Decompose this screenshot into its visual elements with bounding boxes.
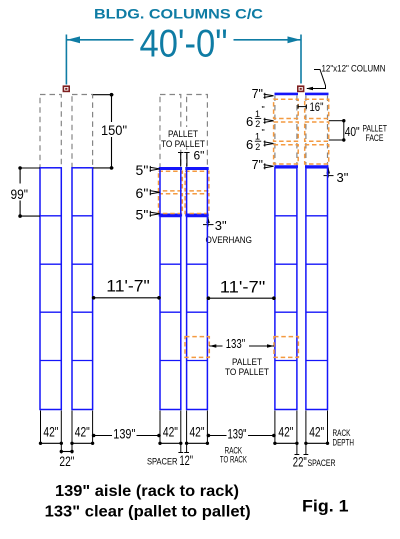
title BLDG. COLUMNS C/C — [94, 5, 263, 21]
svg-text:6": 6" — [194, 148, 205, 162]
svg-text:139": 139" — [113, 425, 135, 441]
rack 3 hidden rails in bay (dashed) — [275, 96, 328, 166]
bottom extension lines — [41, 411, 328, 455]
svg-text:139": 139" — [228, 425, 247, 441]
rack 3 bottom beam — [275, 165, 329, 168]
svg-text:6: 6 — [246, 137, 253, 152]
aisle pallet left (orange dashed) — [185, 337, 209, 358]
svg-text:2: 2 — [255, 142, 260, 152]
svg-text:22": 22" — [59, 453, 74, 469]
label PALLET TO PALLET (top) — [161, 127, 207, 149]
aisle pallet right (orange dashed) — [274, 337, 298, 358]
svg-text:5": 5" — [136, 207, 149, 223]
dimension 11'-7" left — [92, 276, 161, 299]
rack 2 pallets (orange dashed) — [159, 171, 209, 213]
leader 12"x12" COLUMN — [306, 64, 386, 91]
svg-text:FACE: FACE — [366, 133, 384, 143]
dimension 99" — [8, 166, 40, 218]
dimension 40" PALLET FACE — [329, 119, 387, 143]
svg-text:139" aisle (rack to rack): 139" aisle (rack to rack) — [55, 483, 239, 500]
svg-text:PALLET: PALLET — [168, 129, 198, 139]
dimension 6" (pallet to pallet gap) — [178, 148, 204, 166]
svg-text:TO RACK: TO RACK — [220, 455, 248, 465]
svg-text:6: 6 — [246, 114, 253, 129]
dimension 22" rack 1 — [59, 450, 74, 469]
svg-text:42": 42" — [190, 424, 205, 440]
rack 1 frames — [40, 168, 93, 410]
svg-text:OVERHANG: OVERHANG — [206, 235, 253, 245]
svg-text:7": 7" — [252, 158, 263, 172]
svg-text:6": 6" — [136, 185, 149, 201]
dimension 16" — [298, 100, 324, 114]
svg-text:12": 12" — [180, 452, 194, 468]
svg-text:22": 22" — [293, 453, 307, 469]
rack 2 hidden rails (dashed) — [160, 95, 207, 168]
dimension 139" right (RACK TO RACK) — [207, 425, 276, 464]
svg-text:": " — [262, 105, 265, 115]
svg-text:PALLET: PALLET — [232, 357, 262, 367]
svg-text:42": 42" — [278, 424, 293, 440]
dimension 139" left — [92, 425, 161, 441]
svg-text:7": 7" — [252, 87, 263, 101]
rack 3 frames — [275, 168, 328, 410]
svg-text:12"x12" COLUMN: 12"x12" COLUMN — [322, 64, 386, 75]
rack 2 bay side rails — [160, 169, 207, 216]
svg-text:40": 40" — [345, 124, 360, 139]
svg-text:99": 99" — [11, 186, 29, 202]
svg-text:TO PALLET: TO PALLET — [225, 367, 269, 377]
svg-text:133" clear (pallet to pallet): 133" clear (pallet to pallet) — [45, 504, 251, 521]
svg-text:11'-7": 11'-7" — [220, 278, 266, 297]
rack 3 top beam — [275, 93, 329, 96]
rack 3 pallets (orange dashed) — [274, 99, 329, 164]
figure label Fig. 1 — [302, 496, 349, 515]
svg-text:42": 42" — [43, 424, 58, 440]
svg-text:40'-0": 40'-0" — [140, 22, 228, 65]
building column marker right — [298, 86, 304, 91]
dimension 42" x6 — [39, 424, 329, 445]
dimension SPACER 12" rack 2 — [147, 452, 193, 468]
svg-text:2: 2 — [255, 119, 260, 129]
rack 2 frames — [160, 217, 207, 410]
svg-text:PALLET: PALLET — [363, 124, 388, 134]
svg-text:42": 42" — [75, 424, 90, 440]
svg-text:Fig. 1: Fig. 1 — [302, 496, 349, 515]
svg-text:RACK: RACK — [333, 428, 352, 438]
svg-text:": " — [262, 127, 265, 137]
svg-text:42": 42" — [309, 424, 324, 440]
svg-text:1: 1 — [255, 109, 260, 119]
svg-text:3": 3" — [337, 170, 349, 185]
labels 5" 6" 5" — [136, 162, 160, 223]
caption line 1 — [55, 483, 239, 500]
svg-text:42": 42" — [163, 424, 178, 440]
rack 1 hidden rails (dashed) — [40, 95, 93, 168]
svg-text:5": 5" — [136, 162, 149, 178]
svg-text:150": 150" — [101, 122, 127, 138]
dimension 40'-0" — [66, 22, 301, 84]
svg-text:16": 16" — [310, 100, 324, 114]
dimension 150" — [93, 93, 129, 170]
dimension 22" SPACER rack 3 — [293, 453, 336, 469]
svg-text:11'-7": 11'-7" — [106, 276, 150, 295]
rack 2 beams — [159, 169, 209, 216]
svg-text:BLDG. COLUMNS C/C: BLDG. COLUMNS C/C — [94, 5, 263, 21]
svg-text:3": 3" — [215, 218, 227, 233]
overhang 3" rack 3 — [324, 167, 349, 185]
overhang 3" rack 2 — [203, 217, 252, 246]
svg-text:SPACER: SPACER — [308, 458, 336, 468]
caption line 2 — [45, 504, 251, 521]
svg-text:1: 1 — [255, 132, 260, 142]
building column marker left — [63, 86, 69, 91]
svg-text:DEPTH: DEPTH — [333, 438, 355, 448]
svg-text:133": 133" — [226, 336, 246, 351]
svg-text:SPACER: SPACER — [147, 456, 178, 466]
dimension 11'-7" right — [207, 278, 276, 300]
labels 7" 6.5" 6.5" 7" — [246, 87, 274, 172]
dimension 133" — [209, 336, 274, 377]
label RACK DEPTH — [333, 428, 355, 448]
